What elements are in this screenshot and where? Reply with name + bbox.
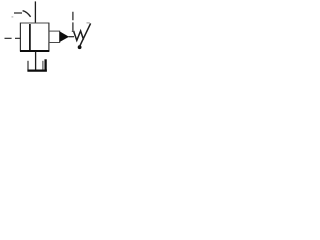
port line P (top vertical wire) [34,1,36,23]
pilot line faint dot [12,16,14,17]
adjustment arrow tail dot [78,45,82,49]
adjustment arrow (long diagonal) [79,23,90,47]
spring top bar [72,30,75,32]
valve body box: bottom edge (thick) [20,50,49,52]
valve body box: right edge [48,23,50,52]
plugged port thick bar [44,59,46,70]
adjustment arrow head dash [87,22,90,24]
tank pipe (vertical wire to reservoir) [35,52,37,70]
reservoir left wall [27,61,29,71]
pilot line dashes (left, entering valve) [5,37,21,39]
reservoir right wall [42,61,44,71]
flow direction triangle (solid) [59,31,69,42]
piston line inside valve body [29,24,31,51]
valve body box: top edge [20,22,49,24]
pilot line dashes (right vertical) [72,12,74,31]
reservoir bottom (thick) [27,69,47,71]
pilot line arc bend [23,11,31,17]
spring housing small box [49,31,60,42]
spring zigzag [74,31,84,41]
pilot line dash (top-left horizontal dash) [14,12,22,14]
wire from triangle tip [69,36,75,38]
valve body box: left edge [19,23,21,52]
